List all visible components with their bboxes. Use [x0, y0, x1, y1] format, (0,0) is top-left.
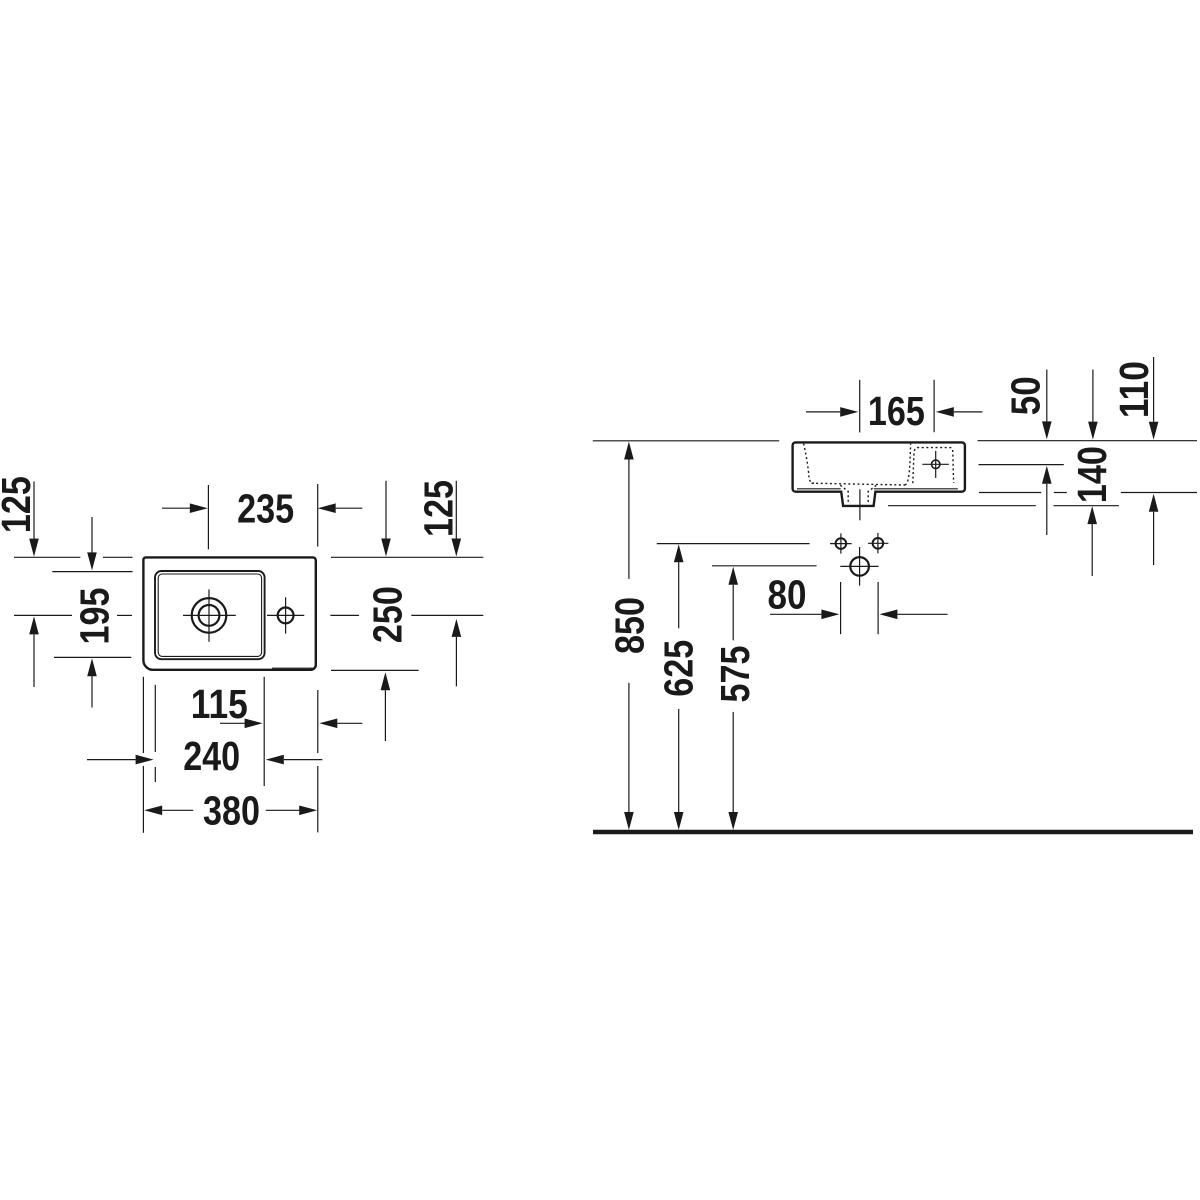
- dim 195 label: [71, 588, 117, 645]
- dim 165 left arrow: [806, 407, 858, 417]
- svg-text:250: 250: [364, 586, 410, 643]
- wall line left of basin: [593, 440, 779, 442]
- hidden bowl left wall: [804, 444, 814, 484]
- dim 195 lower arrow: [87, 658, 97, 707]
- ext line basin left below: [142, 677, 144, 833]
- dim 165 right arrow: [936, 407, 983, 417]
- svg-text:240: 240: [183, 733, 240, 779]
- front tap hole circle: [932, 460, 940, 468]
- dim 80 left arrow: [770, 610, 839, 620]
- dim 50 label: [1002, 376, 1048, 415]
- dim 380 right arrow: [266, 806, 317, 816]
- drain hole circle: [850, 557, 869, 576]
- wall line right of basin: [978, 440, 1198, 442]
- dim 165 ext lines: [860, 380, 934, 433]
- dim 125 left upper arrow: [29, 482, 39, 557]
- tap hole crosshair: [183, 589, 236, 641]
- ext line basin bottom edge right: [331, 669, 419, 671]
- ext line tap centre left: [14, 614, 132, 616]
- washbasin front outline: [793, 442, 965, 506]
- dim 235 label: [237, 485, 294, 531]
- dim 115 right arrow: [319, 719, 362, 729]
- dim 125 right lower arrow: [452, 619, 462, 687]
- dim 110 lower arrow: [1149, 494, 1159, 565]
- floor line: [593, 830, 1193, 835]
- ext line inner rim right below: [263, 677, 265, 786]
- dim 250 upper arrow: [381, 481, 391, 557]
- dim 165 label: [868, 388, 925, 434]
- plan inner basin rim outer contour: [155, 571, 265, 659]
- dim 250 lower arrow: [381, 672, 391, 741]
- ext line tap centre above basin: [207, 485, 209, 549]
- ext line tap centre right: [330, 614, 483, 616]
- ext line basin right below: [317, 690, 319, 832]
- svg-text:80: 80: [768, 571, 807, 617]
- mounting hole right crosshair: [868, 533, 889, 553]
- dim 125 right label: [415, 480, 461, 537]
- ext line basin bottom right: [979, 492, 1197, 494]
- mounting hole left circle: [836, 538, 847, 549]
- dim 850 line: [624, 442, 634, 831]
- dim 240 right arrow: [266, 755, 323, 765]
- overflow hole circle: [278, 608, 294, 624]
- mounting ledge line: [797, 488, 958, 490]
- plan rim ledge line bottom right: [272, 667, 313, 669]
- front tap hole crosshair: [922, 451, 949, 478]
- dim 125 right upper arrow: [452, 481, 462, 557]
- ext line inner rim left below: [154, 685, 156, 782]
- dim 140 label: [1069, 446, 1115, 503]
- mounting hole right circle: [873, 538, 884, 549]
- svg-text:50: 50: [1002, 376, 1048, 415]
- svg-text:165: 165: [868, 388, 925, 434]
- svg-text:235: 235: [237, 485, 294, 531]
- hidden drain funnel: [840, 485, 876, 504]
- dim 125 left lower arrow: [29, 616, 39, 687]
- dim 240 label: [183, 733, 240, 779]
- dim 140 lower arrow: [1087, 506, 1097, 576]
- svg-text:380: 380: [203, 788, 260, 834]
- ext line basin right above: [317, 484, 319, 547]
- dim 235 right arrow: [318, 503, 363, 513]
- dim 625 label: [656, 640, 702, 697]
- dim 50 upper arrow: [1042, 370, 1052, 440]
- dim 80 right arrow: [879, 610, 947, 620]
- dim 110 upper arrow: [1149, 357, 1159, 440]
- dim 125 left label: [0, 476, 39, 533]
- dim 80 label: [768, 571, 807, 617]
- ext line drain level left: [712, 565, 817, 567]
- svg-text:625: 625: [656, 640, 702, 697]
- dim 115 label: [191, 681, 248, 727]
- tap hole inner circle: [199, 605, 220, 626]
- dim 575 line: [728, 567, 738, 830]
- ext line tap level right: [979, 464, 1064, 466]
- mounting hole left crosshair: [830, 533, 852, 553]
- svg-text:140: 140: [1069, 446, 1115, 503]
- svg-text:115: 115: [191, 681, 248, 727]
- dim 575 label: [712, 646, 758, 703]
- ext line basin top edge right: [331, 556, 483, 558]
- dim 140 upper arrow: [1088, 370, 1098, 440]
- ext line inner rim bottom left: [54, 656, 131, 658]
- plan inner basin rim inner contour: [158, 574, 261, 656]
- dim 80 ext lines: [841, 582, 879, 634]
- dim 625 line: [674, 544, 684, 830]
- tap hole outer circle: [192, 598, 227, 633]
- svg-text:110: 110: [1111, 361, 1157, 418]
- dim 235 left arrow: [162, 503, 208, 513]
- dim 50 lower arrow: [1042, 466, 1052, 535]
- dim 380 label: [203, 788, 260, 834]
- svg-text:850: 850: [607, 597, 653, 654]
- hidden bowl right wall: [905, 444, 911, 485]
- ext line mounting holes left: [657, 543, 810, 545]
- svg-text:125: 125: [415, 480, 461, 537]
- dim 850 label: [607, 597, 653, 654]
- overflow hole crosshair: [267, 597, 304, 633]
- svg-text:195: 195: [71, 588, 117, 645]
- svg-text:125: 125: [0, 476, 39, 533]
- dim 110 label: [1111, 361, 1157, 418]
- drain hole crosshair: [840, 547, 878, 586]
- ext line basin top edge left: [14, 556, 133, 558]
- dim 240 left arrow: [87, 755, 154, 765]
- svg-text:575: 575: [712, 646, 758, 703]
- washbasin plan view outer rim: [143, 557, 315, 669]
- dim 250 label: [364, 586, 410, 643]
- ext line outlet bottom right: [888, 505, 1119, 507]
- dim 195 upper arrow: [87, 517, 97, 570]
- dim 115 left arrow: [220, 719, 263, 729]
- ext line inner rim top left: [52, 571, 132, 573]
- hidden tap deck contour: [913, 448, 954, 484]
- drain centre line: [859, 489, 861, 520]
- hidden bowl bottom: [812, 483, 906, 485]
- dim 380 left arrow: [144, 806, 193, 816]
